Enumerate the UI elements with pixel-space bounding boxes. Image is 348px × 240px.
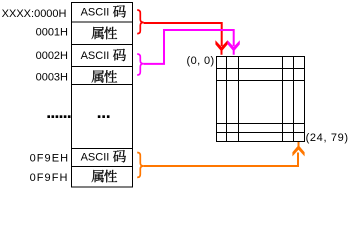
screen grid bbox=[216, 56, 305, 142]
memory table outline bbox=[71, 2, 133, 188]
svg-text:0F9EH: 0F9EH bbox=[30, 152, 70, 164]
cell text row4 shuxing bbox=[92, 70, 104, 82]
svg-text:ASCII: ASCII bbox=[81, 151, 110, 163]
svg-text:0003H: 0003H bbox=[36, 71, 68, 83]
svg-text:0001H: 0001H bbox=[36, 27, 68, 39]
orange brace bbox=[137, 153, 143, 178]
red arrowhead bbox=[215, 40, 227, 55]
ellipsis dots left bbox=[47, 115, 70, 118]
ellipsis dots cell bbox=[98, 115, 110, 118]
cell text row7 shuxing bbox=[92, 170, 104, 182]
svg-text:(0, 0): (0, 0) bbox=[187, 55, 215, 67]
magenta wire bbox=[144, 30, 234, 64]
orange wire bbox=[144, 153, 298, 167]
red wire bbox=[144, 23, 222, 46]
svg-text:ASCII: ASCII bbox=[81, 50, 110, 62]
svg-text:0002H: 0002H bbox=[36, 50, 68, 62]
cell text row2 shuxing bbox=[92, 27, 104, 39]
orange arrowhead bbox=[292, 142, 304, 156]
red brace bbox=[137, 10, 143, 34]
svg-text:0F9FH: 0F9FH bbox=[30, 172, 69, 184]
svg-text:(24, 79): (24, 79) bbox=[306, 132, 348, 144]
svg-text:ASCII: ASCII bbox=[81, 7, 110, 19]
magenta brace bbox=[137, 54, 143, 75]
magenta arrowhead bbox=[228, 40, 240, 55]
svg-text:XXXX:0000H: XXXX:0000H bbox=[2, 8, 67, 20]
